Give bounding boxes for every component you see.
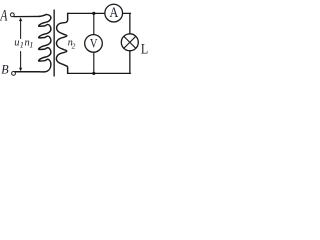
arrowhead up xyxy=(19,17,22,21)
bottom wire xyxy=(68,72,131,74)
junction dot bottom xyxy=(92,72,95,75)
core xyxy=(53,10,55,76)
terminal A circle xyxy=(10,13,14,17)
voltage arrow u1 upper segment xyxy=(20,20,22,39)
ammeter circle xyxy=(105,4,123,22)
svg-text:A: A xyxy=(0,8,8,25)
junction dot top xyxy=(92,12,95,15)
svg-text:B: B xyxy=(1,62,8,77)
wire A to primary coil xyxy=(14,15,40,17)
voltage arrow u1 lower segment xyxy=(20,52,22,70)
lamp circle xyxy=(121,34,138,51)
svg-text:n2: n2 xyxy=(68,37,76,50)
wire ammeter to right corner xyxy=(123,12,131,14)
svg-text:L: L xyxy=(141,42,148,58)
svg-text:V: V xyxy=(90,37,98,51)
svg-text:u1n1: u1n1 xyxy=(14,37,33,49)
lamp bottom lead xyxy=(129,51,131,74)
V branch lower wire xyxy=(93,52,95,73)
arrowhead down xyxy=(19,68,22,72)
wire B to primary coil xyxy=(15,71,39,73)
lamp X xyxy=(124,36,136,48)
primary coil n1 xyxy=(15,14,51,71)
svg-text:A: A xyxy=(110,5,119,21)
voltmeter circle xyxy=(85,35,103,53)
secondary coil n2 xyxy=(56,13,67,73)
secondary top wire xyxy=(68,12,105,14)
V branch upper wire xyxy=(93,13,95,34)
terminal B circle xyxy=(12,72,16,76)
right corner down to lamp xyxy=(129,13,131,33)
